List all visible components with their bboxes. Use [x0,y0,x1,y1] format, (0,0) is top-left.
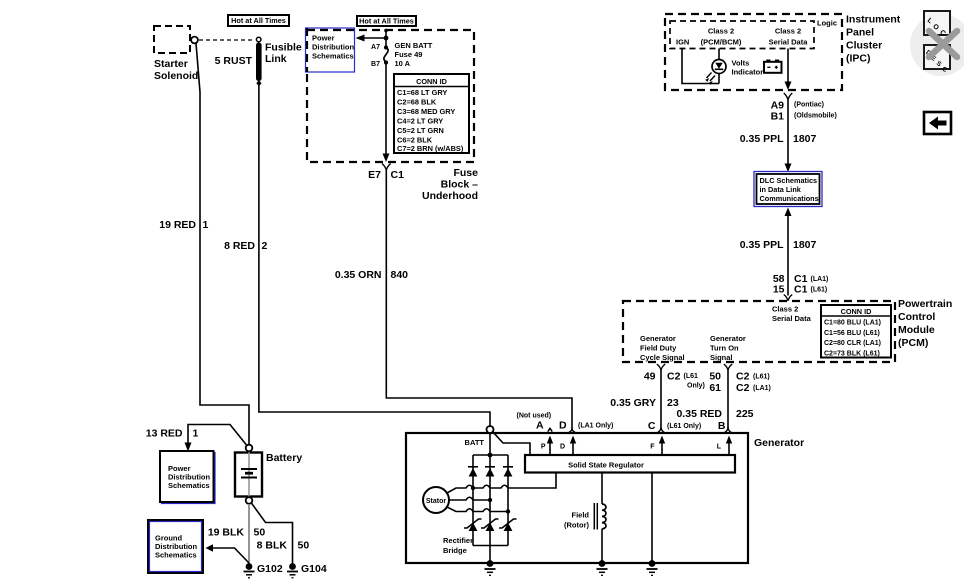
svg-text:Field: Field [571,511,589,520]
stator [423,487,449,513]
svg-text:GEN BATT: GEN BATT [395,41,433,50]
rectifier bridge label [443,536,473,555]
F terminal arrow [650,436,665,456]
svg-text:61: 61 [709,382,721,394]
svg-text:B: B [718,420,726,432]
svg-text:19 RED: 19 RED [159,219,196,231]
svg-text:C1=68 LT GRY: C1=68 LT GRY [397,88,447,97]
svg-text:Cluster: Cluster [846,40,882,52]
fuse block underhood box [307,30,474,162]
fusible link [256,37,302,86]
svg-text:13 RED: 13 RED [146,428,183,440]
svg-text:G102: G102 [257,563,283,575]
svg-text:Schematics: Schematics [168,481,210,490]
wire C: pcm 49 to generator F [657,364,665,432]
wire BATT down to rectifier [489,433,491,563]
svg-text:(PCM): (PCM) [898,337,928,349]
svg-text:Turn On: Turn On [710,344,739,353]
svg-text:F: F [650,444,655,451]
labels class 2 serial data [769,27,809,47]
svg-text:C2: C2 [736,371,750,383]
P terminal arrow [541,436,553,456]
svg-text:Powertrain: Powertrain [898,298,952,310]
logic box [670,21,814,49]
field rotor coil [564,473,606,564]
svg-text:P: P [541,444,546,451]
BATT terminal [465,426,494,447]
svg-text:Stator: Stator [426,498,447,505]
svg-text:A7: A7 [371,44,380,51]
ground distribution schematics ref box [148,520,203,573]
svg-text:1807: 1807 [793,239,817,251]
svg-text:(Rotor): (Rotor) [564,521,589,530]
labels class 2 serial data (pcm) [772,305,812,324]
svg-text:Field Duty: Field Duty [640,344,677,353]
svg-text:C1: C1 [391,169,405,181]
svg-text:Indicator: Indicator [732,68,764,77]
svg-text:1807: 1807 [793,133,817,145]
wire battery to G102 (19 BLK) [248,504,250,564]
connector E7 C1 [368,164,404,182]
power distribution schematics ref box [160,451,215,504]
svg-text:(Oldsmobile): (Oldsmobile) [794,113,837,120]
svg-text:19 BLK: 19 BLK [208,527,245,539]
conn id table (pcm) [821,305,891,358]
L terminal arrow [717,436,732,456]
svg-text:10 A: 10 A [395,59,411,68]
svg-text:C1=56 BLU (L61): C1=56 BLU (L61) [824,330,880,337]
svg-text:49: 49 [644,371,656,383]
D terminal arrow [560,436,576,456]
svg-text:1: 1 [203,219,209,231]
svg-text:50: 50 [254,527,266,539]
starter solenoid [154,26,198,82]
ground at field [597,560,608,575]
ground at rectifier [485,560,496,575]
svg-text:Link: Link [265,53,287,65]
svg-text:(Pontiac): (Pontiac) [794,102,824,109]
svg-text:Underhood: Underhood [422,190,478,202]
regulator ground wire [651,473,653,564]
svg-text:5 RUST: 5 RUST [215,55,253,67]
labels 49 C2 L61 Only [644,371,705,390]
svg-text:(LA1): (LA1) [753,385,771,392]
desc icon box [924,45,950,74]
battery [235,445,302,504]
svg-text:Generator: Generator [754,437,804,449]
upper diodes [468,467,513,477]
fuse block label [422,167,478,202]
ground G102 [244,563,283,578]
svg-text:Module: Module [898,324,935,336]
svg-text:Solid State Regulator: Solid State Regulator [568,461,644,470]
IGN wire [682,49,719,84]
svg-text:C3=68 MED GRY: C3=68 MED GRY [397,107,455,116]
wire branch 13 RED to power distribution [188,425,247,447]
fuse 49 GEN BATT [371,29,433,162]
svg-text:Block –: Block – [441,179,479,191]
svg-text:C2=80 CLR (LA1): C2=80 CLR (LA1) [824,340,881,347]
svg-text:Starter: Starter [154,58,188,70]
ground G104 [287,563,327,578]
svg-text:(L61: (L61 [684,373,699,380]
wire: fusible link to generator BATT (8 RED) [259,85,490,426]
svg-text:0.35 PPL: 0.35 PPL [740,133,784,145]
battery icon (volts) [764,60,782,73]
svg-text:225: 225 [736,408,754,420]
solenoid switch contact [191,37,198,44]
rectifier bridge rails [473,453,508,546]
stator phase wire middle [449,497,492,502]
label (not used) A [517,413,553,432]
svg-text:Distribution: Distribution [312,43,354,52]
gray X watermark [929,31,957,57]
svg-text:C1=80 BLU (LA1): C1=80 BLU (LA1) [824,320,881,327]
svg-text:1: 1 [193,428,199,440]
hot at all times label 1 [228,15,289,26]
svg-text:CONN ID: CONN ID [416,77,447,86]
svg-text:CONN ID: CONN ID [841,307,872,316]
svg-text:in Data Link: in Data Link [760,185,802,194]
instrument panel cluster box [665,14,842,90]
svg-text:Fuse 49: Fuse 49 [395,50,423,59]
powertrain control module box [623,301,895,362]
svg-text:(LA1 Only): (LA1 Only) [578,423,613,430]
connector fork at D terminal [569,429,575,433]
svg-text:C2=68 BLK: C2=68 BLK [397,98,437,107]
label generator turn on signal [710,334,746,362]
power distribution schematics ref box (fuse block) [306,28,355,72]
powertrain control module label [898,298,952,349]
svg-text:C2: C2 [736,382,750,394]
svg-text:(PCM/BCM): (PCM/BCM) [701,38,742,47]
svg-text:Serial Data: Serial Data [772,314,812,323]
svg-text:D: D [560,444,565,451]
svg-text:0.35 PPL: 0.35 PPL [740,239,784,251]
wire BATT to regulator [493,432,530,455]
svg-text:B7: B7 [371,61,380,68]
svg-text:Rectifier: Rectifier [443,536,473,545]
svg-text:D: D [559,420,567,432]
svg-text:50: 50 [709,371,721,383]
svg-text:(LA1): (LA1) [811,276,829,283]
svg-text:Only): Only) [687,383,705,390]
wire: solenoid to battery (19 RED) [196,43,249,444]
instrument panel cluster label [846,14,901,65]
ground at regulator [647,560,658,575]
svg-text:15: 15 [773,284,785,296]
lower avalanche diodes [464,519,517,531]
svg-text:L: L [717,444,722,451]
labels 50 61 C2 [709,371,771,395]
svg-text:Power: Power [312,34,335,43]
solid state regulator [525,455,735,473]
svg-text:BATT: BATT [465,438,485,447]
svg-text:A: A [536,420,544,432]
svg-text:Battery: Battery [266,452,302,464]
svg-text:C2=73 BLK (L61): C2=73 BLK (L61) [824,350,880,357]
svg-text:C1: C1 [794,284,808,296]
left dashes over ref box [306,28,308,72]
svg-text:Fuse: Fuse [453,167,478,179]
stator phase wire top [446,473,556,494]
label generator field duty cycle signal [640,334,685,362]
svg-text:2: 2 [262,240,268,252]
svg-text:Class 2: Class 2 [772,305,798,314]
hot at all times label 2 [357,16,416,26]
labels 58 15 C1 [773,273,829,296]
svg-text:Communications: Communications [760,194,819,203]
svg-text:Serial Data: Serial Data [769,38,809,47]
svg-text:0.35 GRY: 0.35 GRY [610,397,656,409]
svg-text:E7: E7 [368,169,381,181]
dlc schematics ref box [754,172,822,207]
svg-text:Class 2: Class 2 [775,27,801,36]
wire battery to G104 (8 BLK) [251,503,292,564]
volts indicator LED [705,49,763,85]
svg-text:Fusible: Fusible [265,42,302,54]
svg-text:Volts: Volts [732,59,750,68]
conn id table (fuse block) [394,74,469,153]
svg-text:8 BLK: 8 BLK [257,540,288,552]
svg-text:(L61): (L61) [753,374,770,381]
svg-text:Solenoid: Solenoid [154,70,198,82]
svg-text:(IPC): (IPC) [846,53,871,65]
svg-text:840: 840 [391,269,409,281]
svg-text:(Not used): (Not used) [517,413,552,420]
svg-text:Class 2: Class 2 [708,27,734,36]
svg-text:8 RED: 8 RED [224,240,255,252]
svg-text:0.35 RED: 0.35 RED [676,408,722,420]
svg-text:Control: Control [898,311,935,323]
connector A9 B1 [771,93,837,123]
svg-text:G104: G104 [301,563,327,575]
wire fuse to generator D terminal (0.35 ORN) [386,170,572,429]
labels class 2 pcm/bcm ign [676,27,742,47]
svg-text:C: C [648,420,656,432]
svg-text:Instrument: Instrument [846,14,901,26]
dashed wire solenoid to fusible link [199,39,255,41]
svg-text:C5=2 LT GRN: C5=2 LT GRN [397,126,444,135]
arrow to power distribution [356,35,389,42]
wire DLC to PCM (0.35 PPL) [784,208,792,301]
svg-text:C2: C2 [667,371,681,383]
svg-text:Hot at All Times: Hot at All Times [359,17,414,26]
svg-text:Generator: Generator [710,334,746,343]
stator phase wire bottom [446,507,510,514]
svg-text:0.35 ORN: 0.35 ORN [335,269,382,281]
svg-text:50: 50 [298,540,310,552]
svg-text:IGN: IGN [676,38,689,47]
svg-text:C4=2 LT GRY: C4=2 LT GRY [397,117,443,126]
loc icon box [924,11,950,38]
watermark blob [910,14,964,76]
svg-text:(L61): (L61) [811,287,828,294]
svg-text:Signal: Signal [710,353,733,362]
svg-text:Schematics: Schematics [312,52,354,61]
svg-text:Schematics: Schematics [155,551,197,560]
svg-text:Bridge: Bridge [443,546,467,555]
wire IPC to DLC (0.35 PPL) [785,100,792,172]
svg-text:Generator: Generator [640,334,676,343]
svg-text:Panel: Panel [846,27,874,39]
svg-text:C7=2 BRN (w/ABS): C7=2 BRN (w/ABS) [397,144,464,153]
svg-text:Logic: Logic [817,19,837,28]
svg-text:Cycle Signal: Cycle Signal [640,353,685,362]
svg-text:DLC Schematics: DLC Schematics [760,176,818,185]
wire B: pcm 50/61 to generator L [724,364,732,432]
svg-text:B1: B1 [771,111,785,123]
back arrow button [924,112,951,134]
svg-text:(L61 Only): (L61 Only) [667,423,701,430]
generator box [406,433,748,563]
svg-text:Hot at All Times: Hot at All Times [231,16,286,25]
arrow ground distribution to G102 wire [206,544,214,551]
serial data wire out of IPC [785,49,792,91]
